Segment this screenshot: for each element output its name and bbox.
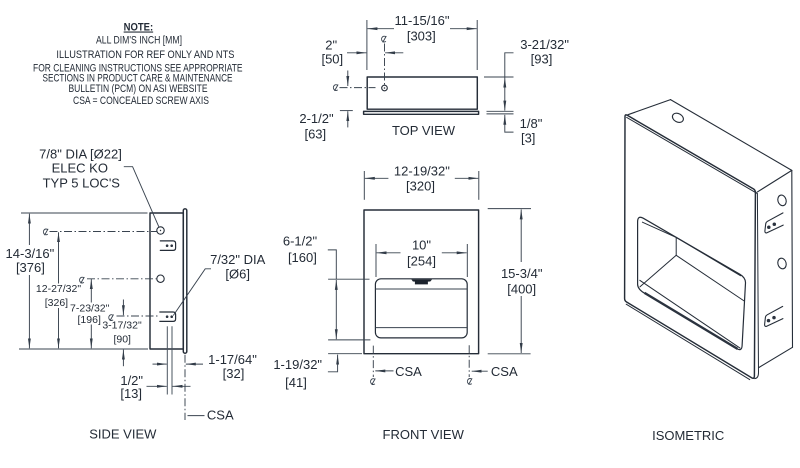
svg-text:[320]: [320] [406,179,435,194]
dim 11-15/16 ext line left [366,20,368,70]
dim 11-15/16 ext line right [476,20,478,70]
svg-text:TOP VIEW: TOP VIEW [392,123,456,138]
svg-text:[3]: [3] [521,131,535,146]
centerline KO1 [50,231,157,233]
CSA centerline right [468,345,470,377]
iso box back-right edge [791,170,794,347]
svg-text:1/8": 1/8" [520,116,543,131]
dim 2in arrow left [347,52,366,54]
flange ext lines right [487,110,514,112]
svg-text:3-21/32": 3-21/32" [520,37,569,52]
dim 1/2 right arrow [173,385,191,387]
dim 1-17/64 right arrow [186,363,203,365]
SIDE-VIEW [6,147,266,442]
dim 6-1/2 bracket [328,250,337,279]
iso flange top hem [627,117,757,193]
centerline horizontal to hole [340,87,376,89]
svg-text:7-23/32": 7-23/32" [70,302,110,314]
centerline KO2 [87,278,157,280]
svg-text:ILLUSTRATION FOR REF ONLY AND: ILLUSTRATION FOR REF ONLY AND NTS [56,49,234,61]
dim 10 ext right [466,244,468,277]
dim 7-23/32 bottom arrow [90,325,92,349]
svg-text:ALL DIM'S INCH [MM]: ALL DIM'S INCH [MM] [96,35,182,47]
dim 2in arrow right [385,52,403,54]
svg-text:NOTE:: NOTE: [124,22,154,34]
dim 3-21/32 ext line top [484,76,514,78]
centerline symbol slot2 [109,315,114,321]
svg-text:12-27/32": 12-27/32" [36,283,81,295]
side body [150,213,183,349]
CSA leader [188,415,205,417]
dim 10 arrow right [442,252,467,254]
CSA symbol left [371,379,376,385]
dim 11-15/16 arrow left [367,28,394,30]
svg-text:CSA = CONCEALED SCREW AXIS: CSA = CONCEALED SCREW AXIS [73,95,209,107]
centerline symbol top [382,36,387,42]
top ext line [21,212,148,214]
side slot 2 [160,312,176,321]
iso side slot 1 [765,213,783,233]
dim 1/2 left arrow [147,385,167,387]
dim 15-3/4 top arrow [520,209,522,262]
dim 12-19/32 ext left [363,171,365,200]
top view body [367,77,477,109]
leader 7/32 DIA [173,269,211,316]
CSA centerline left [372,346,374,377]
CSA leader right [472,370,488,372]
top view hole [382,85,388,91]
centerline vertical to hole [384,44,386,85]
iso box top-right depth edge [757,170,792,192]
NOTE-BLOCK [33,22,243,107]
dim 1/8 bracket [505,131,514,133]
svg-text:11-15/16": 11-15/16" [395,13,450,28]
dim 3-17/32 bottom arrow [122,350,124,367]
dim 11-15/16 arrow right [450,28,477,30]
iso box top far edge [671,100,792,171]
iso side oval 2 [777,257,788,270]
bottom ext line [19,348,148,350]
top view flange [364,111,479,114]
svg-text:[90]: [90] [113,334,131,346]
leader 7/8 DIA [124,167,159,228]
side slot 1 [160,241,175,251]
svg-text:[63]: [63] [304,127,326,142]
dim 12-19/32 ext right [478,171,480,200]
dim 2-1/2 bottom arrow [347,111,349,127]
side KO circle 2 [157,275,164,282]
iso flange bottom hem [626,304,750,379]
dim 1-19/32 ext [328,353,362,355]
iso recess bottom lip heavy line [645,293,738,349]
front outer body [364,210,479,354]
centerline slot2 [117,315,159,317]
iso flange front face [625,115,756,378]
iso top oval hole [671,111,685,124]
svg-text:[326]: [326] [45,297,68,309]
svg-text:[400]: [400] [507,281,536,296]
svg-text:CSA: CSA [207,407,234,422]
dim 15-3/4 ext top [488,208,531,210]
dim 12-19/32 arrow right [455,177,479,179]
dim 1-19/32 arrow [337,355,339,372]
front recess opening [375,279,467,338]
svg-text:BULLETIN (PCM) ON ASI WEBSITE: BULLETIN (PCM) ON ASI WEBSITE [69,83,208,95]
recess bottom band line [376,327,467,329]
iso recess back-left stub [675,237,677,255]
svg-text:[196]: [196] [78,314,101,326]
svg-text:FRONT VIEW: FRONT VIEW [383,427,465,442]
svg-text:1-17/64": 1-17/64" [208,352,257,367]
svg-text:[376]: [376] [16,260,45,275]
iso recess opening [638,217,746,349]
svg-text:12-19/32": 12-19/32" [394,163,450,178]
centerline symbol left [333,85,338,91]
centerline symbol KO2 [80,277,85,283]
mounting stud lines [166,326,168,394]
svg-text:15-3/4": 15-3/4" [501,266,543,281]
svg-text:TYP 5 LOC'S: TYP 5 LOC'S [43,176,121,191]
dim 1/8 arrow [504,115,506,132]
dim 15-3/4 ext bottom [488,353,531,355]
dim 1-17/64 left arrow [153,363,167,365]
iso box bottom edge [759,347,793,367]
dim 2-1/2 ext line [340,110,353,112]
dim 14-3/16 top arrow [28,214,30,245]
svg-text:3-17/32": 3-17/32" [102,320,142,332]
towel lever dark detail [411,279,432,284]
svg-text:7/8" DIA [Ø22]: 7/8" DIA [Ø22] [39,147,122,162]
svg-text:[160]: [160] [288,250,317,265]
svg-text:[303]: [303] [407,29,436,44]
svg-text:[254]: [254] [407,253,436,268]
dim 3-21/32 line [504,78,506,111]
svg-text:[41]: [41] [285,375,307,390]
dim 2-1/2 top arrow [347,71,349,87]
dim 6-1/2 line [335,280,337,339]
iso recess ceiling left line [642,222,676,237]
centerline symbol KO1 [43,229,48,235]
iso recess ceiling back line [676,237,740,275]
svg-text:SIDE VIEW: SIDE VIEW [89,427,157,442]
dim 6-1/2 ext top [328,278,369,280]
dim 12-19/32 arrow left [365,177,389,179]
iso side slot 2 [765,306,783,326]
dim 15-3/4 bottom arrow [520,296,522,353]
dim 10 arrow left [377,252,401,254]
iso recess floor back line [676,255,744,301]
svg-text:[32]: [32] [223,366,245,381]
side flange strip [183,209,187,353]
recess top band line [376,288,467,290]
svg-text:ELEC KO: ELEC KO [52,161,108,176]
svg-text:2": 2" [325,37,337,52]
svg-text:10": 10" [412,237,431,252]
svg-text:14-3/16": 14-3/16" [6,246,55,261]
svg-text:[50]: [50] [321,51,343,66]
svg-text:2-1/2": 2-1/2" [299,111,334,126]
dim 3-21/32 bracket [505,53,514,77]
svg-text:ISOMETRIC: ISOMETRIC [652,428,724,443]
iso side oval 1 [777,194,788,207]
dim 12-27/32 bottom arrow [58,308,60,348]
TOP-VIEW [299,13,569,146]
side KO circle 1 [157,227,164,234]
svg-text:[Ø6]: [Ø6] [225,267,250,282]
ISO-VIEW [625,100,793,443]
CSA centerline [184,355,186,420]
dim 1-19/32 elbow [328,371,338,373]
dim 3-17/32 top arrow [122,300,124,316]
CSA leader left [375,370,393,372]
iso recess floor left diagonal [640,255,676,286]
svg-text:CSA: CSA [395,364,422,379]
svg-text:[93]: [93] [531,52,553,67]
dim 6-1/2 ext bottom [328,339,370,341]
svg-text:6-1/2": 6-1/2" [283,233,318,248]
svg-text:CSA: CSA [491,364,518,379]
dim 14-3/16 bottom arrow [28,275,30,348]
CSA symbol right [467,378,472,384]
svg-text:1-19/32": 1-19/32" [273,357,322,372]
svg-text:7/32" DIA: 7/32" DIA [210,252,266,267]
dim 12-27/32 top arrow [58,232,60,283]
dim 10 ext left [375,244,377,277]
dim 7-23/32 top arrow [90,279,92,303]
iso flange right hem [755,193,759,378]
FRONT-VIEW [273,163,542,442]
iso recess floor front line [640,280,740,348]
iso box top-left depth edge [628,100,671,115]
svg-text:[13]: [13] [120,386,142,401]
